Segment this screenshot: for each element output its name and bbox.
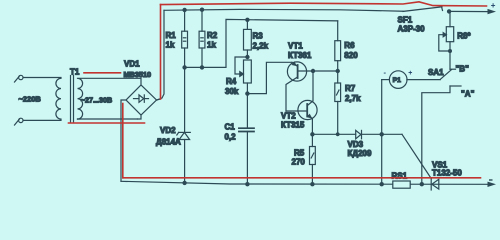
node R2 bottom (200, 65, 204, 69)
svg-text:R6: R6 (344, 41, 355, 50)
wire C1 node to VT1 emitter (247, 62, 292, 93)
wire red plus vertical (160, 5, 162, 99)
transformer T1 (23, 68, 141, 123)
wire plus vertical from bridge to top rail (157, 10, 164, 100)
svg-text:КТ361: КТ361 (288, 51, 312, 60)
wire bridge left corner to bottom rail (121, 100, 126, 181)
svg-text:~220В: ~220В (19, 95, 42, 104)
svg-text:1k: 1k (166, 41, 175, 50)
wire stabilized feed (185, 19, 338, 67)
wire red minus vertical (122, 104, 124, 178)
svg-text:C1: C1 (225, 123, 236, 132)
wire bridge bottom corner to secondary (138, 115, 142, 119)
label minus terminal (489, 179, 493, 181)
svg-text:R3: R3 (253, 32, 264, 41)
node top rail arrow (488, 9, 497, 14)
red highlighted wires (69, 2, 487, 178)
svg-text:RS1: RS1 (392, 172, 408, 181)
node P1 gate line (380, 132, 384, 136)
node R2 top (200, 8, 204, 12)
node R3 R4 junction (245, 55, 249, 59)
wire red secondary top (84, 72, 121, 74)
svg-text:R7: R7 (345, 84, 356, 93)
transistor VT1 (286, 42, 313, 112)
thyristor VS1 (431, 161, 462, 190)
svg-text:~27...30В: ~27...30В (81, 95, 112, 104)
svg-text:SF1: SF1 (398, 16, 413, 25)
svg-text:Т132-50: Т132-50 (432, 169, 462, 178)
svg-text:30k: 30k (225, 87, 239, 96)
svg-text:КД209: КД209 (348, 149, 372, 158)
svg-text:"В": "В" (456, 65, 470, 74)
svg-text:VD3: VD3 (348, 140, 364, 149)
wire red bottom rail (123, 177, 481, 179)
meter P1 (382, 68, 441, 184)
node VT1 base VT2 collector (311, 69, 315, 73)
svg-text:КТ315: КТ315 (281, 120, 305, 129)
node R3 top feed (245, 18, 249, 22)
zener VD2 (156, 67, 190, 182)
svg-text:P1: P1 (393, 77, 402, 84)
svg-text:R5: R5 (294, 149, 305, 158)
bridge VD1 (124, 60, 157, 115)
node R7 VD3 junction (336, 132, 340, 136)
svg-text:1k: 1k (207, 41, 216, 50)
resistor R6 (335, 21, 358, 83)
resistor R4 variable (225, 57, 251, 96)
diode VD3 (312, 130, 402, 158)
svg-text:А3Р-30: А3Р-30 (398, 25, 426, 34)
wire red secondary bottom (69, 122, 145, 124)
switch SA1 (420, 65, 475, 187)
svg-text:R8*: R8* (457, 31, 471, 40)
node VD2 bottom rail (182, 181, 186, 185)
node R1 top (182, 8, 186, 12)
svg-text:VT2: VT2 (281, 112, 296, 121)
node VT2 emitter R5 VD3 (310, 132, 314, 136)
node R4 bottom C1 (245, 91, 249, 95)
wire red top rail (161, 2, 487, 6)
svg-text:VD2: VD2 (160, 126, 176, 135)
svg-text:2,7k: 2,7k (345, 94, 361, 103)
node C1 bottom rail (245, 182, 249, 186)
svg-text:"А": "А" (461, 90, 475, 99)
wire bridge right corner stub (157, 99, 161, 100)
svg-text:МВ3510: МВ3510 (124, 70, 152, 79)
node R5 bottom rail (310, 182, 314, 186)
svg-text:270: 270 (292, 157, 306, 166)
resistor R3 (244, 18, 269, 57)
svg-text:820: 820 (344, 51, 358, 60)
terminal input bottom (15, 118, 23, 125)
svg-text:Т1: Т1 (70, 68, 80, 77)
svg-text:R1: R1 (166, 31, 177, 40)
transistor VT2 (281, 71, 317, 134)
node SA1 A bottom rail (420, 182, 424, 186)
breaker SF1 (398, 7, 443, 34)
resistor R1 (166, 10, 188, 68)
svg-text:VD1: VD1 (124, 60, 140, 69)
svg-text:VT1: VT1 (288, 42, 303, 51)
node P1 bottom (380, 182, 384, 186)
resistor R8 (439, 11, 472, 69)
terminal input top (15, 75, 23, 82)
svg-text:SA1: SA1 (428, 68, 444, 77)
wire VT1 base to R6 R7 (313, 70, 338, 72)
wire top rail (164, 9, 489, 11)
node R8 wiper tie (448, 49, 452, 53)
capacitor C1 (225, 94, 255, 185)
svg-text:Д814А: Д814А (156, 137, 181, 146)
svg-text:+: + (491, 1, 496, 10)
resistor R2 (199, 10, 218, 68)
node top rail R8 junction (447, 9, 451, 13)
svg-text:R4: R4 (226, 77, 237, 86)
wire gate diagonal (402, 134, 431, 178)
svg-text:+: + (408, 70, 412, 77)
resistor RS1 shunt (392, 172, 411, 189)
resistor R7 (335, 83, 361, 134)
svg-text:2,2k: 2,2k (253, 41, 269, 50)
svg-text:R2: R2 (207, 31, 218, 40)
node R1 bottom (182, 65, 186, 69)
wire bottom rail (121, 181, 490, 184)
svg-text:0,2: 0,2 (225, 133, 237, 142)
node R6 R7 junction (336, 69, 340, 73)
resistor R5 (292, 134, 316, 184)
node bottom rail arrow (488, 182, 497, 187)
